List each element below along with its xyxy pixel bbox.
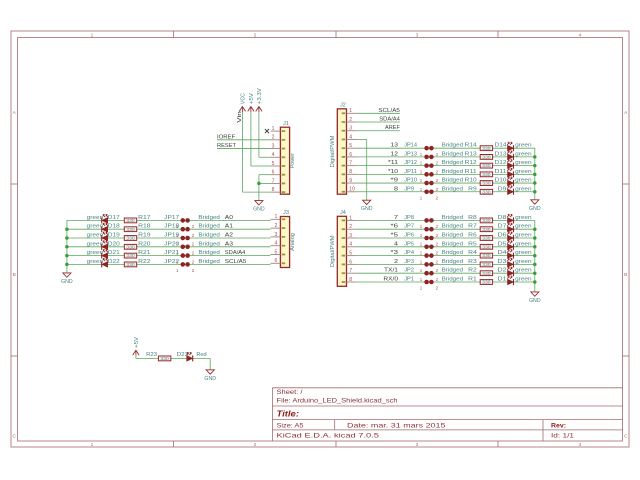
- svg-text:R3: R3: [468, 259, 477, 265]
- svg-text:JP7: JP7: [404, 224, 414, 230]
- LED D2: [507, 267, 513, 276]
- svg-text:JP11: JP11: [404, 169, 417, 175]
- svg-text:1: 1: [349, 215, 352, 221]
- svg-text:Bridged: Bridged: [442, 233, 464, 239]
- wire row D8: [357, 219, 535, 221]
- svg-text:10: 10: [349, 187, 355, 193]
- J3 pin 3 stub: [271, 232, 281, 238]
- LED D21: [102, 250, 108, 259]
- svg-text:330: 330: [126, 262, 135, 267]
- resistor R13: [480, 155, 492, 160]
- wire row D12: [357, 165, 535, 167]
- svg-text:SCL/A5: SCL/A5: [378, 108, 400, 114]
- svg-text:D3: D3: [498, 259, 507, 265]
- J3 pin 4 stub: [271, 241, 281, 247]
- svg-text:B: B: [624, 272, 627, 278]
- svg-text:+5V: +5V: [134, 337, 140, 348]
- svg-text:+3.3V: +3.3V: [257, 88, 263, 104]
- svg-text:2: 2: [274, 223, 277, 229]
- jumper JP9: [420, 189, 439, 200]
- J2 pin 1 stub: [347, 108, 357, 114]
- svg-text:D13: D13: [495, 151, 507, 157]
- svg-text:green: green: [515, 143, 532, 149]
- svg-text:*5: *5: [391, 233, 399, 239]
- svg-text:green: green: [515, 215, 532, 221]
- jumper JP13: [420, 155, 439, 166]
- junction right top rail row 3: [533, 164, 537, 168]
- svg-text:JP13: JP13: [404, 151, 417, 157]
- svg-text:D21: D21: [108, 250, 120, 256]
- svg-text:8: 8: [349, 169, 352, 175]
- svg-text:R21: R21: [138, 250, 150, 256]
- svg-text:JP4: JP4: [404, 250, 415, 256]
- connector J2 Digital/PWM: [330, 102, 347, 194]
- GND rail left bank: [66, 220, 68, 273]
- wire row D22: [67, 263, 271, 265]
- svg-text:Bridged: Bridged: [442, 169, 464, 175]
- svg-text:Bridged: Bridged: [442, 215, 464, 221]
- svg-text:1: 1: [91, 32, 94, 38]
- svg-text:JP2: JP2: [404, 268, 414, 274]
- resistor R5: [480, 244, 492, 249]
- wire row D14: [357, 147, 535, 149]
- svg-text:4: 4: [274, 241, 277, 247]
- svg-text:D7: D7: [498, 224, 507, 230]
- title block: [272, 388, 622, 441]
- resistor R10: [480, 181, 492, 186]
- svg-text:Bridged: Bridged: [198, 259, 220, 265]
- jumper JP3: [420, 262, 439, 273]
- J1 pin 4 stub: [271, 152, 281, 158]
- svg-text:SCL/A5: SCL/A5: [225, 259, 247, 265]
- svg-text:330: 330: [482, 227, 491, 232]
- wire J2 pin4 to GND: [366, 139, 368, 200]
- svg-text:6: 6: [349, 259, 352, 265]
- svg-text:D6: D6: [498, 233, 507, 239]
- svg-text:J2: J2: [340, 102, 346, 108]
- svg-text:6: 6: [272, 170, 275, 176]
- wire RESET to J1 pin3: [217, 148, 271, 150]
- wire row D6: [357, 237, 535, 239]
- svg-text:TX/1: TX/1: [384, 268, 398, 274]
- svg-text:D5: D5: [498, 241, 507, 247]
- svg-text:green: green: [515, 224, 532, 230]
- jumper JP18: [176, 227, 195, 238]
- svg-text:Bridged: Bridged: [198, 224, 220, 230]
- J2 pin 8 stub: [347, 169, 357, 175]
- svg-text:R14: R14: [465, 143, 478, 149]
- svg-text:R13: R13: [465, 151, 477, 157]
- junction left rail row 6: [65, 263, 69, 267]
- svg-text:D19: D19: [108, 233, 120, 239]
- LED D20: [102, 241, 108, 250]
- svg-text:GND: GND: [529, 206, 541, 212]
- svg-text:330: 330: [482, 253, 491, 258]
- junction right top rail row 6: [533, 190, 537, 194]
- wire J2 pin4 horizontal: [357, 138, 367, 140]
- svg-text:KiCad E.D.A. kicad 7.0.5: KiCad E.D.A. kicad 7.0.5: [277, 432, 380, 439]
- svg-text:D9: D9: [498, 186, 507, 192]
- svg-text:330: 330: [482, 280, 491, 285]
- ground right top bank: [529, 200, 541, 212]
- LED D9: [507, 186, 513, 195]
- svg-text:5: 5: [349, 143, 352, 149]
- svg-text:330: 330: [126, 253, 135, 258]
- svg-text:R18: R18: [138, 224, 150, 230]
- svg-text:2: 2: [254, 442, 257, 448]
- LED D22: [102, 258, 108, 267]
- svg-text:7: 7: [272, 178, 275, 184]
- svg-text:RESET: RESET: [217, 143, 236, 149]
- svg-text:Vin: Vin: [237, 111, 243, 123]
- svg-text:7: 7: [394, 215, 398, 221]
- junction right top rail row 5: [533, 181, 537, 185]
- J2 pin 9 stub: [347, 178, 357, 184]
- power VCC: [239, 93, 246, 112]
- svg-text:Id: 1/1: Id: 1/1: [551, 432, 575, 439]
- svg-text:R4: R4: [468, 250, 477, 256]
- svg-text:J1: J1: [283, 121, 289, 127]
- wire J1 pin8 horizontal: [242, 191, 270, 193]
- J4 pin 1 stub: [347, 215, 357, 221]
- svg-text:330: 330: [482, 271, 491, 276]
- wire +5V vertical: [250, 112, 252, 166]
- resistor R22: [124, 262, 136, 267]
- LED D3: [507, 258, 513, 267]
- LED D4: [507, 250, 513, 259]
- LED D7: [507, 223, 513, 232]
- resistor R11: [480, 172, 492, 177]
- svg-text:330: 330: [160, 356, 169, 361]
- svg-text:2: 2: [349, 224, 352, 230]
- svg-text:Bridged: Bridged: [442, 151, 464, 157]
- svg-text:D1: D1: [498, 277, 507, 283]
- J4 pin 6 stub: [347, 259, 357, 265]
- jumper JP22: [176, 262, 195, 273]
- resistor R20: [124, 244, 136, 249]
- svg-text:green: green: [87, 224, 104, 230]
- svg-text:330: 330: [482, 163, 491, 168]
- svg-text:R12: R12: [465, 160, 477, 166]
- svg-text:330: 330: [126, 218, 135, 223]
- wire row D20: [67, 246, 271, 248]
- svg-text:D11: D11: [495, 169, 507, 175]
- svg-text:GND: GND: [61, 279, 73, 285]
- J1 pin 8 stub: [271, 187, 281, 193]
- LED D19: [102, 232, 108, 241]
- svg-text:JP8: JP8: [404, 215, 414, 221]
- resistor R17: [124, 218, 136, 223]
- svg-text:R17: R17: [138, 215, 150, 221]
- svg-text:green: green: [515, 241, 532, 247]
- jumper JP4: [420, 253, 439, 264]
- svg-text:1: 1: [274, 214, 277, 220]
- wire VCC vertical: [241, 112, 243, 193]
- svg-text:R2: R2: [468, 268, 477, 274]
- svg-text:+5V: +5V: [249, 93, 255, 104]
- resistor R6: [480, 236, 492, 241]
- resistor R2: [480, 271, 492, 276]
- svg-text:Rev:: Rev:: [551, 422, 566, 429]
- svg-text:JP19: JP19: [164, 233, 179, 239]
- LED D5: [507, 241, 513, 250]
- wire J1 pin4 horizontal: [259, 156, 271, 158]
- svg-text:6: 6: [349, 152, 352, 158]
- svg-text:5: 5: [349, 251, 352, 257]
- ground right bottom bank: [529, 292, 541, 304]
- svg-text:Bridged: Bridged: [198, 215, 220, 221]
- svg-text:R22: R22: [138, 259, 150, 265]
- svg-text:2: 2: [394, 259, 398, 265]
- svg-text:5: 5: [272, 161, 275, 167]
- jumper JP10: [420, 181, 439, 192]
- wire row D19: [67, 237, 271, 239]
- svg-text:330: 330: [482, 155, 491, 160]
- junction right top rail row 4: [533, 173, 537, 177]
- svg-text:green: green: [515, 151, 532, 157]
- LED D6: [507, 232, 513, 241]
- junction right bottom rail row 4: [533, 245, 537, 249]
- svg-text:AREF: AREF: [385, 125, 400, 131]
- svg-text:J3: J3: [283, 210, 289, 216]
- svg-text:green: green: [515, 233, 532, 239]
- junction right bottom rail row 5: [533, 254, 537, 258]
- svg-text:Date: mar. 31 mars 2015: Date: mar. 31 mars 2015: [347, 422, 446, 429]
- svg-text:9: 9: [349, 178, 352, 184]
- connector J3 Analog: [280, 210, 296, 267]
- svg-text:330: 330: [126, 244, 135, 249]
- svg-text:330: 330: [482, 189, 491, 194]
- resistor R23: [158, 356, 170, 361]
- svg-text:JP22: JP22: [164, 259, 179, 265]
- svg-text:green: green: [515, 186, 532, 192]
- svg-text:8: 8: [394, 186, 398, 192]
- wire row D13: [357, 156, 535, 158]
- svg-text:3: 3: [349, 126, 352, 132]
- svg-text:C: C: [12, 434, 16, 440]
- svg-text:3: 3: [416, 32, 419, 38]
- svg-text:8: 8: [349, 277, 352, 283]
- svg-text:3: 3: [272, 143, 275, 149]
- wire J1 GND vertical: [258, 175, 260, 201]
- svg-text:7: 7: [349, 161, 352, 167]
- svg-text:Bridged: Bridged: [442, 268, 464, 274]
- svg-text:GND: GND: [361, 206, 373, 212]
- wire D23 to GND: [209, 358, 211, 369]
- J4 pin 4 stub: [347, 242, 357, 248]
- wire row D17: [67, 219, 271, 221]
- svg-text:green: green: [87, 241, 104, 247]
- svg-text:R20: R20: [138, 241, 150, 247]
- J1 pin 3 stub: [271, 143, 281, 149]
- svg-text:Size: A5: Size: A5: [277, 422, 305, 429]
- svg-text:A2: A2: [225, 233, 233, 239]
- junction right bottom rail row 7: [533, 271, 537, 275]
- jumper JP2: [420, 271, 439, 282]
- junction right top rail row 2: [533, 155, 537, 159]
- jumper JP14: [420, 146, 439, 157]
- LED D8: [507, 214, 513, 223]
- svg-text:JP14: JP14: [404, 143, 418, 149]
- svg-text:1: 1: [91, 442, 94, 448]
- resistor R9: [480, 189, 492, 194]
- jumper JP21: [176, 253, 195, 264]
- svg-text:330: 330: [482, 244, 491, 249]
- ground below J2: [361, 200, 373, 212]
- resistor R19: [124, 236, 136, 241]
- wire row D2: [357, 272, 535, 274]
- resistor R18: [124, 227, 136, 232]
- svg-text:330: 330: [126, 227, 135, 232]
- svg-text:R11: R11: [465, 169, 477, 175]
- svg-text:*3: *3: [391, 250, 399, 256]
- svg-text:VCC: VCC: [240, 93, 246, 104]
- svg-text:4: 4: [579, 32, 582, 38]
- J4 pin 3 stub: [347, 233, 357, 239]
- connector J1 Power: [280, 121, 296, 194]
- svg-text:1: 1: [272, 126, 275, 132]
- svg-text:*6: *6: [391, 224, 399, 230]
- svg-text:green: green: [515, 169, 532, 175]
- junction right bottom rail row 6: [533, 263, 537, 267]
- resistor R12: [480, 163, 492, 168]
- svg-text:4: 4: [579, 442, 582, 448]
- ground below J1: [253, 201, 265, 213]
- svg-text:*11: *11: [388, 160, 398, 166]
- junction left rail row 3: [65, 236, 69, 240]
- svg-text:RX/0: RX/0: [383, 277, 398, 283]
- svg-text:File: Arduino_LED_Shield.kicad: File: Arduino_LED_Shield.kicad_sch: [277, 398, 399, 405]
- wire row D11: [357, 173, 535, 175]
- svg-text:1: 1: [349, 108, 352, 114]
- svg-text:D8: D8: [498, 215, 507, 221]
- J2 pin 5 stub: [347, 143, 357, 149]
- svg-text:Bridged: Bridged: [442, 224, 464, 230]
- svg-text:Bridged: Bridged: [198, 250, 220, 256]
- jumper JP6: [420, 236, 439, 247]
- svg-text:Bridged: Bridged: [198, 233, 220, 239]
- power +5V: [248, 93, 255, 112]
- svg-text:4: 4: [349, 242, 352, 248]
- wire row D1: [357, 281, 535, 283]
- svg-text:C: C: [624, 434, 628, 440]
- svg-text:R23: R23: [146, 352, 157, 358]
- power +3.3V: [256, 88, 263, 112]
- jumper JP19: [176, 236, 195, 247]
- svg-text:IOREF: IOREF: [217, 135, 236, 141]
- svg-text:JP10: JP10: [404, 178, 417, 184]
- jumper JP17: [176, 218, 195, 229]
- svg-text:330: 330: [482, 146, 491, 151]
- svg-text:D18: D18: [108, 224, 120, 230]
- wire R23 row: [136, 357, 210, 359]
- svg-text:green: green: [87, 259, 104, 265]
- J4 pin 7 stub: [347, 268, 357, 274]
- svg-text:8: 8: [272, 187, 275, 193]
- svg-text:Title:: Title:: [277, 408, 300, 418]
- svg-text:R19: R19: [138, 233, 150, 239]
- wire +5V down: [135, 355, 137, 359]
- LED D1: [507, 276, 513, 285]
- svg-text:3: 3: [274, 232, 277, 238]
- wire J1 pin6 horizontal: [259, 174, 271, 176]
- wire AREF: [357, 130, 400, 132]
- svg-text:Red: Red: [196, 352, 206, 358]
- junction J1 pin7: [257, 182, 261, 186]
- J2 pin 4 stub: [347, 134, 357, 140]
- svg-text:Bridged: Bridged: [442, 178, 464, 184]
- svg-text:R6: R6: [468, 233, 477, 239]
- svg-text:D22: D22: [108, 259, 120, 265]
- svg-text:green: green: [515, 178, 532, 184]
- svg-text:JP20: JP20: [164, 241, 179, 247]
- connector J4 Digital/PWM: [330, 210, 347, 286]
- svg-text:GND: GND: [204, 376, 216, 382]
- jumper JP20: [176, 245, 195, 256]
- svg-text:green: green: [515, 259, 532, 265]
- svg-text:J4: J4: [340, 210, 346, 216]
- power +5V (R23 section): [133, 337, 140, 356]
- jumper JP5: [420, 245, 439, 256]
- resistor R4: [480, 253, 492, 258]
- jumper JP11: [420, 172, 439, 183]
- svg-text:green: green: [87, 233, 104, 239]
- J4 pin 8 stub: [347, 277, 357, 283]
- svg-text:Bridged: Bridged: [198, 241, 220, 247]
- svg-text:JP6: JP6: [404, 233, 414, 239]
- svg-text:*9: *9: [391, 178, 399, 184]
- svg-text:Bridged: Bridged: [442, 250, 464, 256]
- svg-text:R10: R10: [465, 178, 477, 184]
- svg-text:3: 3: [416, 442, 419, 448]
- LED D11: [507, 168, 513, 177]
- svg-text:JP5: JP5: [404, 241, 414, 247]
- ground left bank: [61, 273, 73, 285]
- svg-text:Bridged: Bridged: [442, 241, 464, 247]
- svg-text:330: 330: [482, 236, 491, 241]
- J2 pin 10 stub: [347, 187, 357, 193]
- wire row D4: [357, 255, 535, 257]
- J1 pin 5 stub: [271, 161, 281, 167]
- svg-text:330: 330: [126, 236, 135, 241]
- svg-text:Bridged: Bridged: [442, 259, 464, 265]
- J4 pin 5 stub: [347, 251, 357, 257]
- svg-text:SDA/A4: SDA/A4: [379, 117, 400, 123]
- J1 pin 2 stub: [271, 135, 281, 141]
- svg-text:JP9: JP9: [404, 186, 414, 192]
- svg-text:R1: R1: [468, 277, 477, 283]
- svg-text:Power: Power: [290, 153, 296, 168]
- wire row D5: [357, 246, 535, 248]
- svg-text:JP17: JP17: [164, 215, 179, 221]
- jumper JP12: [420, 163, 439, 174]
- J1 pin 7 stub: [271, 178, 281, 184]
- svg-text:green: green: [87, 250, 104, 256]
- svg-text:A3: A3: [225, 241, 233, 247]
- svg-text:5: 5: [274, 249, 277, 255]
- J2 pin 3 stub: [347, 126, 357, 132]
- svg-text:D17: D17: [108, 215, 120, 221]
- junction right bottom rail row 2: [533, 227, 537, 231]
- svg-text:Bridged: Bridged: [442, 186, 464, 192]
- J3 pin 2 stub: [271, 223, 281, 229]
- svg-text:D20: D20: [108, 241, 120, 247]
- LED D12: [507, 160, 513, 169]
- junction left rail row 5: [65, 254, 69, 258]
- svg-text:330: 330: [482, 181, 491, 186]
- wire J1 pin7 horizontal: [259, 182, 271, 184]
- svg-text:green: green: [87, 215, 104, 221]
